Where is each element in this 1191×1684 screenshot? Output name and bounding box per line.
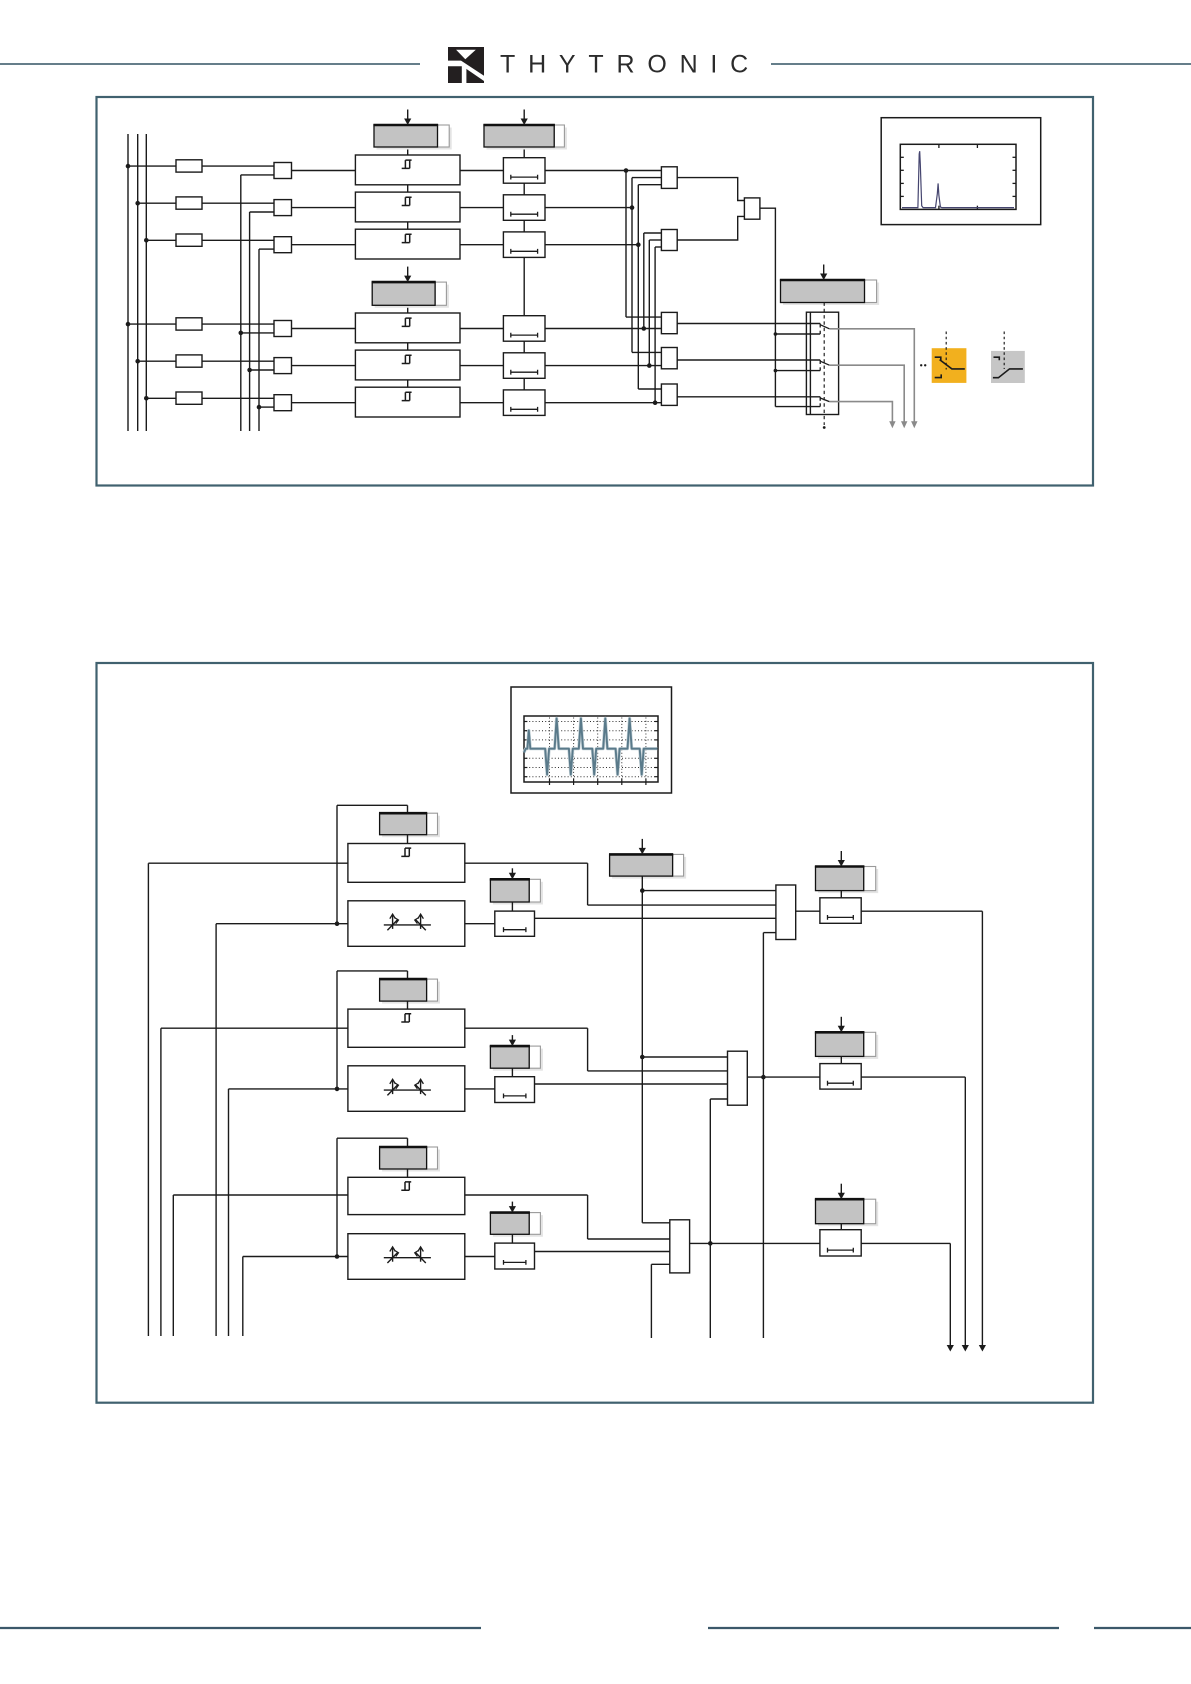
svg-text:THYTRONIC: THYTRONIC xyxy=(500,51,761,79)
